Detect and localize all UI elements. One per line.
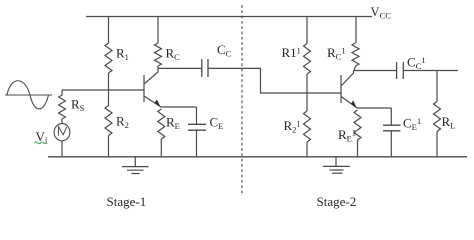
wire: CE' top lead [390, 108, 392, 125]
svg-text:RL: RL [442, 114, 456, 131]
svg-text:VCC: VCC [371, 5, 392, 21]
wire: R1' bottom lead [306, 74, 308, 93]
wire: CE' bottom lead [390, 131, 392, 157]
wire: emitter wire Q1 [161, 106, 196, 108]
wire: RC top lead [157, 17, 159, 44]
resistor R2' [304, 111, 311, 142]
capacitor CE [188, 124, 206, 130]
ground symbol stage 1 [122, 157, 149, 174]
wire: R1 top lead [108, 17, 110, 44]
resistor RS [59, 95, 66, 119]
ground symbol stage 2 [323, 157, 350, 173]
wire: collector Q2 to CC' [354, 70, 397, 72]
svg-text:RC1: RC1 [327, 45, 346, 62]
wire: emitter wire Q2 [358, 107, 392, 109]
wire: collector to CC [158, 67, 202, 69]
wire: CE top lead [196, 107, 198, 124]
wire: Rs branch top lead [61, 90, 63, 95]
svg-text:RS: RS [71, 97, 85, 114]
stage divider dashed line [241, 5, 243, 196]
wire: RC bottom lead [157, 66, 159, 68]
transistor Q1 [144, 68, 161, 107]
svg-text:CE: CE [210, 115, 224, 132]
svg-text:R11: R11 [282, 45, 301, 60]
wire: RE' bottom lead [357, 140, 359, 157]
spellcheck squiggle under Vi [35, 142, 47, 144]
wire: R2 top lead [108, 90, 110, 106]
wire: CC to stage2 base [208, 68, 341, 93]
transistor Q2 [341, 71, 358, 109]
resistor RC [155, 43, 162, 66]
input signal sine wave symbol [5, 81, 52, 109]
resistor R2 [105, 106, 112, 136]
svg-text:RE1: RE1 [338, 127, 356, 144]
svg-text:CE1: CE1 [403, 116, 421, 133]
AC source sine glyph [58, 127, 66, 136]
wire: R2' bottom lead [306, 142, 308, 157]
resistor RE [158, 109, 165, 139]
wire: R1 bottom lead [108, 73, 110, 90]
wire: ground bottom rail [48, 156, 467, 158]
svg-text:Stage-2: Stage-2 [317, 194, 357, 209]
svg-text:RC: RC [166, 46, 181, 63]
svg-text:R2: R2 [116, 114, 129, 131]
svg-text:R1: R1 [116, 46, 129, 63]
resistor RC' [352, 43, 359, 66]
resistor R1' [304, 44, 311, 75]
wire: source to ground rail [61, 141, 63, 157]
wire: CC' output wire [403, 70, 458, 72]
wire: RC' top lead [355, 17, 357, 44]
wire: RE bottom lead [160, 139, 162, 157]
wire: R1' top lead [306, 17, 308, 44]
wire: Rs to source lead [61, 119, 63, 124]
wire: RC' bottom lead [354, 66, 356, 71]
resistor RE' [354, 110, 361, 140]
svg-text:Stage-1: Stage-1 [107, 194, 147, 209]
wire: RL top lead [436, 71, 438, 102]
resistor R1 [105, 43, 112, 73]
capacitor CC [202, 59, 208, 77]
svg-text:R21: R21 [284, 118, 301, 135]
wire: R2 bottom lead [108, 136, 110, 157]
resistor RL [434, 102, 441, 132]
wire: R2' top lead [306, 93, 308, 111]
svg-text:CC: CC [217, 42, 232, 59]
wire: base wire Q1 [62, 89, 144, 91]
capacitor CE' [383, 125, 401, 131]
wire: RL bottom lead [436, 132, 438, 157]
capacitor CC' [397, 62, 404, 79]
wire: Vcc top rail [86, 16, 372, 18]
AC source Vi circle [54, 124, 70, 141]
svg-text:RE: RE [166, 115, 180, 132]
wire: CE bottom lead [196, 130, 198, 157]
svg-text:CC1: CC1 [407, 55, 426, 72]
